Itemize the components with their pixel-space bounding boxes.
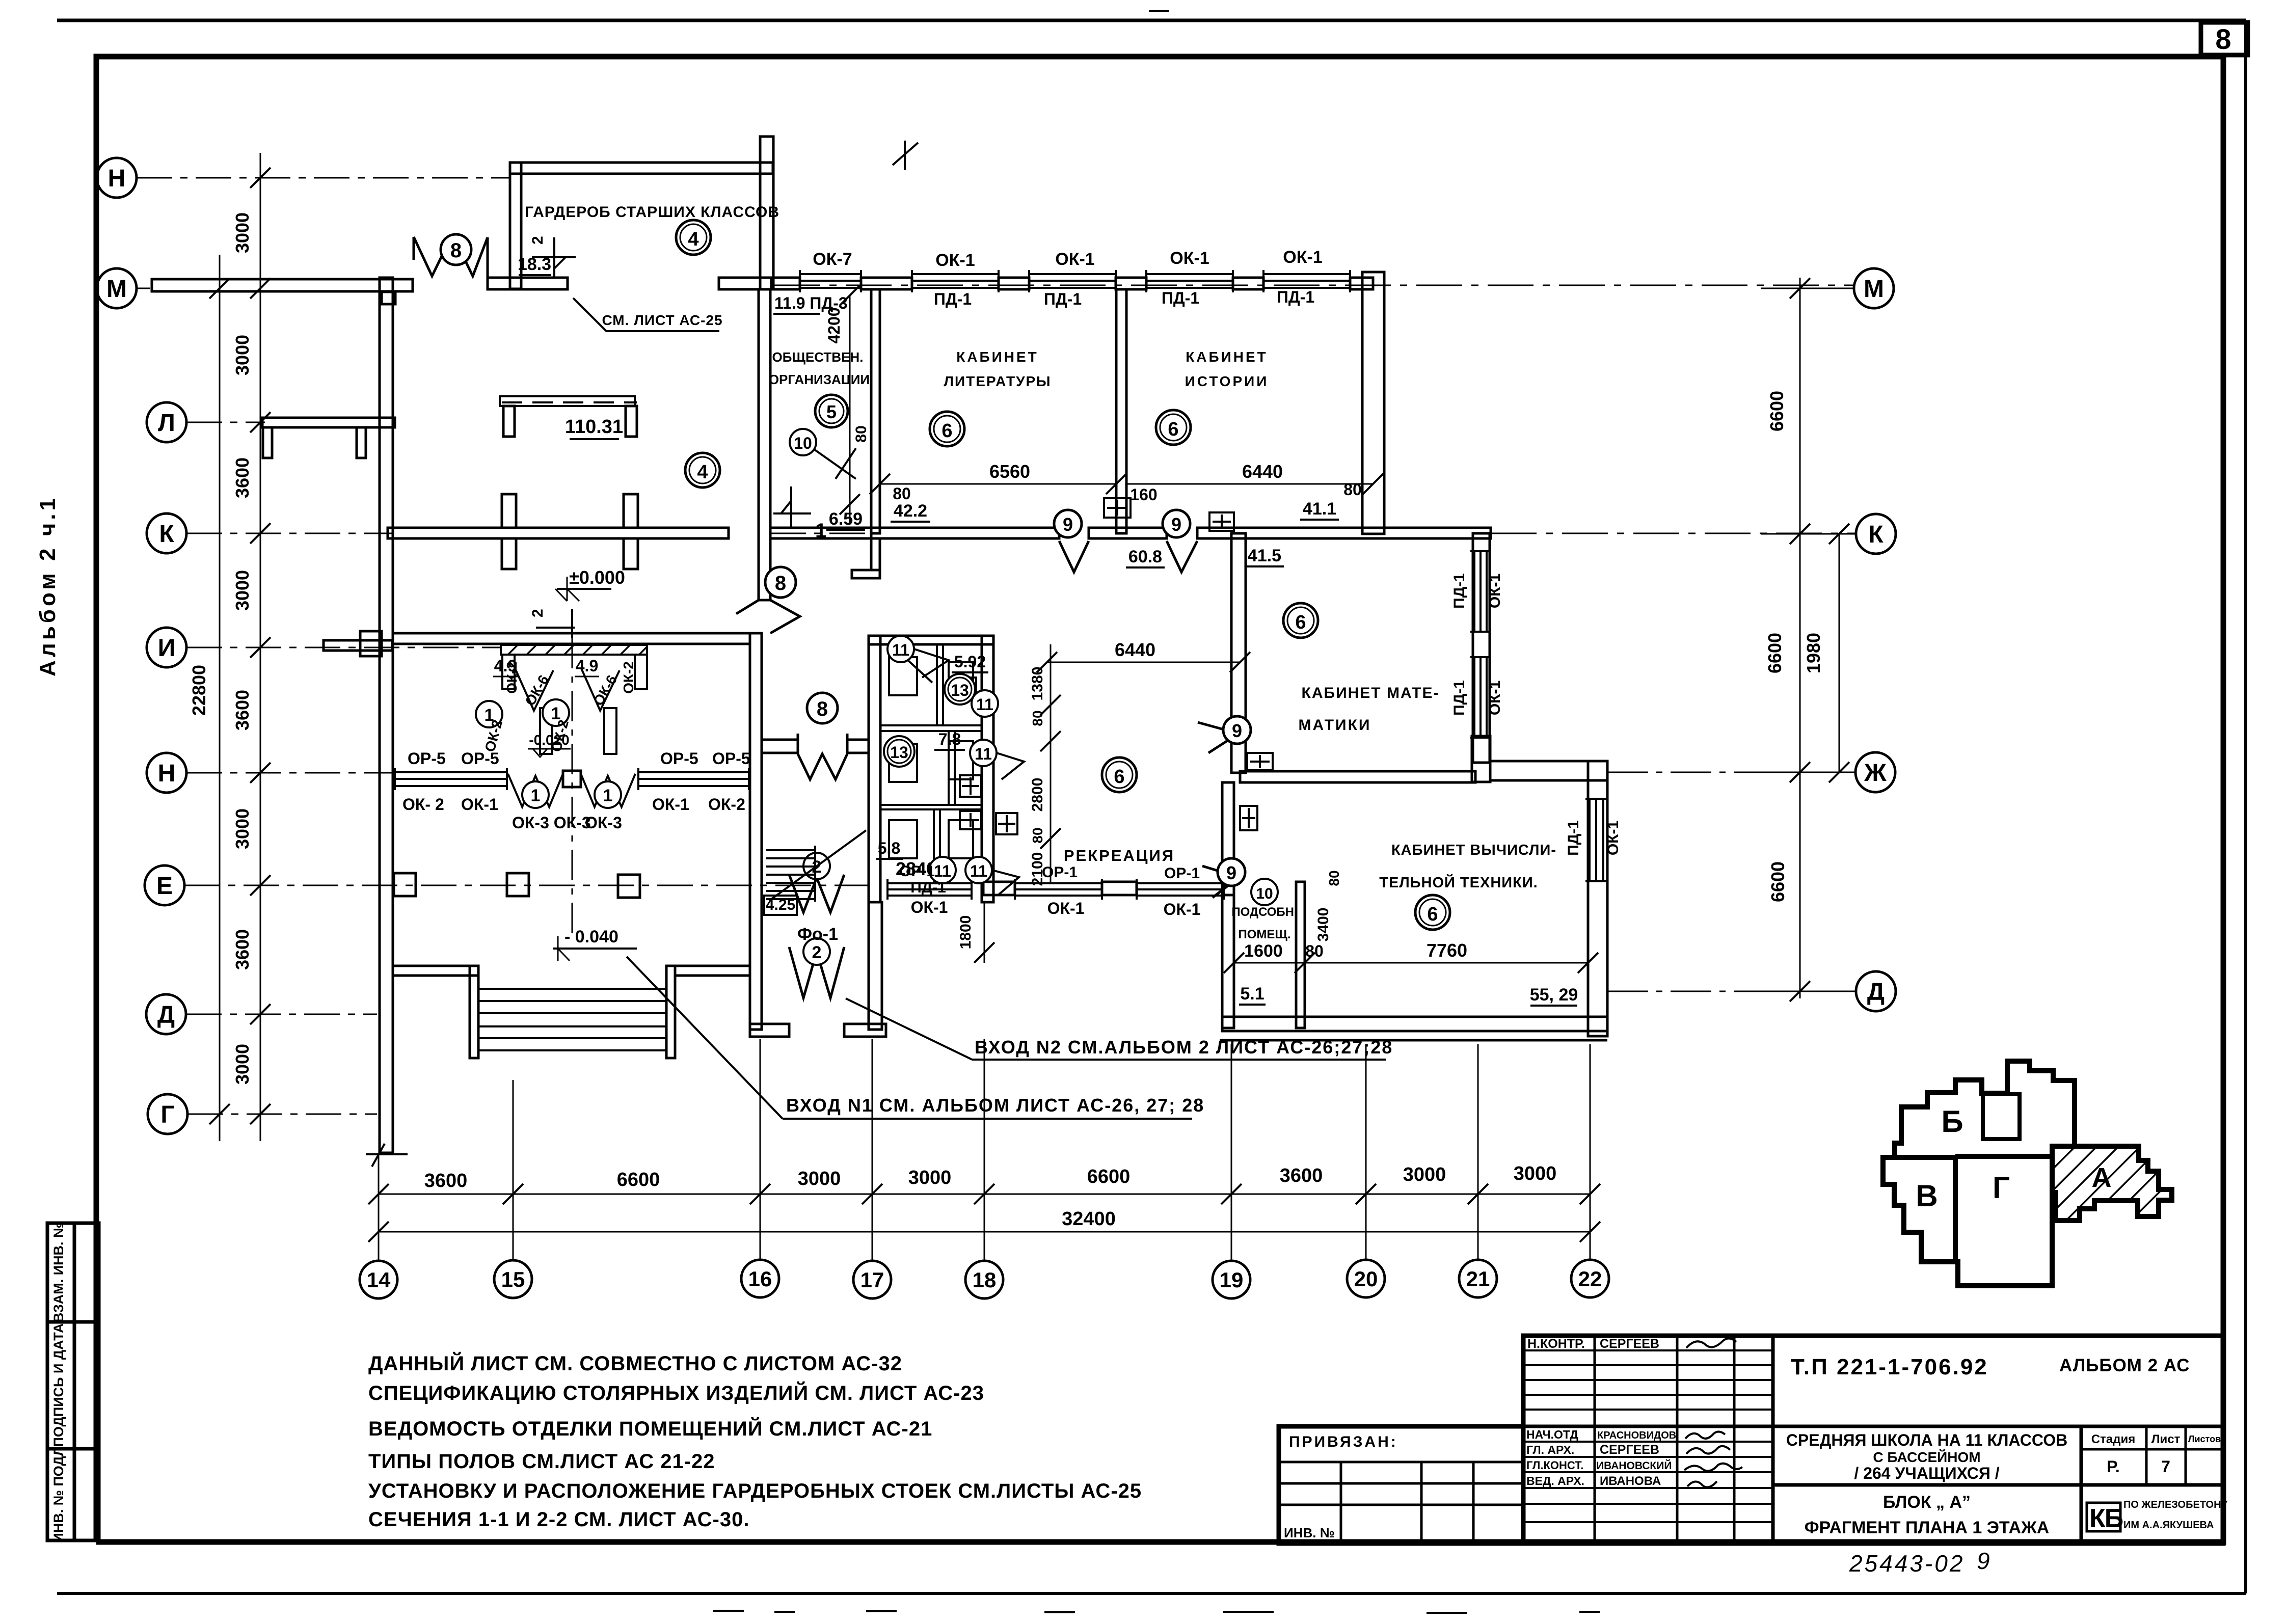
svg-text:А: А	[2092, 1162, 2112, 1193]
svg-text:6600: 6600	[1764, 633, 1785, 673]
svg-text:КАБИНЕТ ВЫЧИСЛИ-: КАБИНЕТ ВЫЧИСЛИ-	[1391, 842, 1556, 858]
D-axis bottom wall	[1222, 1017, 1607, 1031]
M-wing column stub	[382, 292, 395, 304]
svg-text:80: 80	[893, 484, 911, 503]
center corridor door 8	[798, 734, 847, 779]
bathroom west wall	[869, 636, 880, 902]
walls group	[152, 137, 1607, 1153]
svg-text:11: 11	[970, 862, 987, 880]
svg-text:Стадия: Стадия	[2091, 1432, 2135, 1446]
svg-text:16: 16	[748, 1267, 772, 1291]
svg-text:13: 13	[951, 681, 969, 699]
Zh-axis wall left part	[1240, 771, 1475, 782]
math circle 6	[1283, 603, 1318, 638]
svg-text:ОК-3: ОК-3	[585, 814, 622, 832]
svg-text:Фо-1: Фо-1	[797, 925, 838, 944]
svg-text:7760: 7760	[1427, 940, 1467, 961]
recreation dim 6440	[1047, 662, 1240, 663]
utility circle 10	[1251, 879, 1278, 905]
svg-text:14: 14	[367, 1268, 391, 1292]
svg-text:3400: 3400	[1315, 908, 1332, 942]
svg-text:22800: 22800	[189, 665, 209, 716]
svg-text:ОРГАНИЗАЦИИ: ОРГАНИЗАЦИИ	[769, 372, 870, 387]
svg-text:ОК-1: ОК-1	[652, 795, 689, 814]
right axis circles	[1854, 268, 1896, 1011]
window OR-5 left band	[395, 771, 507, 773]
svg-text:ОК-1: ОК-1	[1605, 821, 1622, 855]
heater math top	[1209, 512, 1234, 531]
utility door 9	[1202, 866, 1239, 898]
door circle 9 math	[1223, 716, 1251, 744]
svg-text:80: 80	[1305, 942, 1324, 960]
beam line hall	[500, 396, 635, 406]
svg-text:ОК- 2: ОК- 2	[402, 795, 444, 814]
bottom-left terrace wall left segment	[393, 966, 478, 976]
svg-text:11: 11	[892, 641, 909, 659]
svg-text:Т.П 221-1-706.92: Т.П 221-1-706.92	[1791, 1355, 1988, 1379]
svg-text:ВХОД N1 СМ. АЛЬБОМ ЛИСТ АС-26: ВХОД N1 СМ. АЛЬБОМ ЛИСТ АС-26, 27; 28	[786, 1095, 1204, 1116]
M-axis wall left wing	[152, 279, 413, 291]
window OK-1 math upper	[1473, 551, 1475, 632]
exterior entrance steps treads	[478, 989, 666, 1050]
bottom axis vertical lines	[379, 1039, 1590, 1260]
svg-text:4.9: 4.9	[576, 657, 598, 675]
svg-text:ИНВ. № ПОДЛ: ИНВ. № ПОДЛ	[51, 1446, 66, 1542]
stairwell west wall	[750, 633, 762, 1030]
svg-text:Р.: Р.	[2107, 1457, 2119, 1476]
svg-text:ВХОД N2 СМ.АЛЬБОМ 2 ЛИСТ АС-26: ВХОД N2 СМ.АЛЬБОМ 2 ЛИСТ АС-26;27;28	[975, 1037, 1393, 1058]
svg-text:В: В	[1916, 1179, 1938, 1213]
svg-text:25443-02: 25443-02	[1849, 1550, 1965, 1577]
windows on math room right wall	[1470, 551, 1491, 632]
svg-text:9: 9	[1977, 1548, 1990, 1574]
bathroom east wall	[982, 636, 993, 902]
central spine wall upper	[759, 289, 770, 600]
svg-text:Ж: Ж	[1864, 760, 1887, 787]
svg-text:ОК-2: ОК-2	[621, 661, 636, 694]
svg-text:80: 80	[1030, 710, 1045, 726]
svg-text:ОР-1: ОР-1	[899, 863, 935, 880]
hall circle 4	[685, 453, 720, 488]
notes block	[368, 1351, 1142, 1531]
svg-text:3000: 3000	[1403, 1164, 1446, 1185]
svg-text:СРЕДНЯЯ ШКОЛА НА 11 КЛАССОВ: СРЕДНЯЯ ШКОЛА НА 11 КЛАССОВ	[1786, 1431, 2067, 1449]
svg-text:6: 6	[941, 420, 952, 442]
svg-text:3000: 3000	[908, 1167, 952, 1188]
washroom window pier	[563, 771, 581, 787]
svg-text:Лист: Лист	[2151, 1432, 2181, 1446]
svg-text:3000: 3000	[798, 1168, 841, 1189]
section mark 2 bottom	[536, 609, 575, 638]
sheet number box top-right	[2201, 22, 2248, 55]
washroom hatched partition	[501, 645, 647, 655]
svg-text:СЕРГЕЕВ: СЕРГЕЕВ	[1600, 1443, 1659, 1457]
svg-text:ПОМЕЩ.: ПОМЕЩ.	[1238, 928, 1290, 941]
svg-text:ОК-2: ОК-2	[708, 795, 745, 814]
heater math bottom	[1247, 753, 1273, 770]
svg-text:КБ: КБ	[2089, 1504, 2123, 1533]
svg-text:ПД-1: ПД-1	[1451, 680, 1468, 716]
svg-text:8: 8	[817, 698, 828, 720]
svg-text:80: 80	[1030, 827, 1045, 843]
left axis circles	[97, 158, 187, 1134]
svg-text:ОК-1: ОК-1	[911, 898, 948, 916]
svg-text:С БАССЕЙНОМ: С БАССЕЙНОМ	[1873, 1449, 1980, 1465]
svg-text:7.8: 7.8	[938, 730, 961, 748]
svg-text:2800: 2800	[1029, 778, 1046, 812]
svg-text:3600: 3600	[232, 929, 253, 970]
bathroom top wall	[869, 636, 993, 644]
svg-text:2: 2	[529, 609, 546, 617]
washroom doors OK-6 upper	[515, 667, 620, 711]
svg-text:3000: 3000	[232, 335, 253, 375]
svg-text:1: 1	[531, 786, 541, 805]
E-axis columns	[394, 873, 416, 896]
utility room left wall	[1222, 782, 1234, 1028]
corridor door 8 in spine wall	[736, 600, 800, 633]
svg-text:СЕРГЕЕВ: СЕРГЕЕВ	[1600, 1337, 1659, 1351]
svg-text:8: 8	[2215, 23, 2231, 55]
svg-text:ТИПЫ ПОЛОВ СМ.ЛИСТ АС 21-22: ТИПЫ ПОЛОВ СМ.ЛИСТ АС 21-22	[368, 1450, 715, 1473]
svg-text:5.92: 5.92	[954, 653, 986, 671]
svg-text:К: К	[159, 521, 174, 548]
svg-text:9: 9	[1226, 862, 1236, 883]
svg-text:И: И	[158, 635, 176, 662]
windows on E wall recreation bottom	[887, 879, 972, 900]
svg-text:ПОДПИСЬ И ДАТА: ПОДПИСЬ И ДАТА	[51, 1323, 66, 1447]
svg-text:ИСТОРИИ: ИСТОРИИ	[1185, 373, 1269, 389]
svg-text:42.2: 42.2	[894, 501, 927, 521]
E wall piers	[983, 882, 1015, 895]
Zh-axis wall right part	[1490, 761, 1607, 780]
svg-text:ПОДСОБН.: ПОДСОБН.	[1231, 905, 1297, 919]
svg-text:ПД-1: ПД-1	[1162, 289, 1199, 307]
svg-text:18: 18	[973, 1268, 997, 1292]
svg-text:9: 9	[1171, 514, 1181, 535]
svg-text:АЛЬБОМ 2 АС: АЛЬБОМ 2 АС	[2059, 1356, 2190, 1375]
washroom doors 1 lower	[508, 774, 635, 807]
top edge mark	[1149, 10, 1169, 12]
interior stair treads	[766, 830, 866, 902]
small signature table verticals	[1594, 1336, 1596, 1544]
window OK-1 f	[1015, 882, 1102, 884]
svg-text:80: 80	[1326, 870, 1342, 886]
small table rows	[1523, 1349, 1773, 1351]
svg-text:Г: Г	[160, 1101, 174, 1128]
bottom dim labels	[424, 1163, 1557, 1230]
svg-text:2: 2	[529, 236, 546, 245]
sheet outer border top	[57, 19, 2246, 22]
svg-text:6: 6	[1427, 904, 1438, 925]
svg-text:Е: Е	[156, 873, 173, 900]
svg-text:1600: 1600	[1244, 941, 1283, 961]
svg-text:ВЕД. АРХ.: ВЕД. АРХ.	[1526, 1474, 1584, 1487]
svg-text:ОР-1: ОР-1	[1042, 864, 1078, 881]
svg-text:БЛОК „ А”: БЛОК „ А”	[1883, 1493, 1971, 1512]
svg-text:80: 80	[853, 425, 870, 442]
sheet outer border right	[2244, 20, 2247, 1593]
svg-text:11: 11	[934, 862, 951, 880]
svg-text:ГЛ. АРХ.: ГЛ. АРХ.	[1526, 1443, 1574, 1456]
svg-text:160: 160	[1130, 485, 1157, 504]
porch bottom wall right	[844, 1024, 886, 1037]
svg-text:М: М	[106, 276, 127, 303]
svg-text:ФРАГМЕНТ ПЛАНА 1 ЭТАЖА: ФРАГМЕНТ ПЛАНА 1 ЭТАЖА	[1805, 1518, 2050, 1537]
computer room right wall	[1588, 761, 1607, 1036]
right axis tick extensions	[1761, 288, 1856, 991]
svg-text:3000: 3000	[232, 570, 253, 611]
svg-text:ОК-3 ОК-3: ОК-3 ОК-3	[512, 814, 591, 832]
svg-text:Листов: Листов	[2188, 1434, 2221, 1444]
svg-text:1980: 1980	[1803, 633, 1824, 673]
svg-text:1: 1	[603, 786, 613, 805]
svg-text:Д: Д	[1867, 979, 1885, 1006]
svg-text:КАБИНЕТ: КАБИНЕТ	[956, 349, 1039, 365]
svg-text:55, 29: 55, 29	[1530, 985, 1578, 1005]
key plan block V	[1883, 1157, 1955, 1262]
svg-text:ДАННЫЙ ЛИСТ СМ. СОВМЕСТНО С: ДАННЫЙ ЛИСТ СМ. СОВМЕСТНО С ЛИСТОМ АС-32	[368, 1351, 902, 1375]
corridor door circle 8	[765, 567, 796, 598]
corridor wall stub left of door 8	[762, 740, 869, 753]
svg-text:Н.КОНТР.: Н.КОНТР.	[1527, 1337, 1585, 1351]
svg-text:11.9 ПД-3: 11.9 ПД-3	[774, 294, 848, 312]
literature history divider wall	[1116, 289, 1126, 533]
recreation circle 6	[1102, 757, 1137, 792]
computer room circle 6	[1415, 895, 1450, 930]
svg-text:НАЧ.ОТД: НАЧ.ОТД	[1526, 1428, 1578, 1441]
svg-text:3600: 3600	[232, 457, 253, 498]
svg-text:±0.000: ±0.000	[569, 567, 625, 588]
svg-text:КАБИНЕТ МАТЕ-: КАБИНЕТ МАТЕ-	[1302, 685, 1440, 701]
svg-text:21: 21	[1466, 1267, 1490, 1291]
svg-text:ПО ЖЕЛЕЗОБЕТОНУ: ПО ЖЕЛЕЗОБЕТОНУ	[2123, 1499, 2228, 1510]
window OK-7	[800, 273, 861, 275]
svg-text:ОК-1: ОК-1	[1170, 249, 1209, 268]
svg-text:ГАРДЕРОБ СТАРШИХ КЛАССОВ: ГАРДЕРОБ СТАРШИХ КЛАССОВ	[525, 204, 779, 221]
svg-text:КАБИНЕТ: КАБИНЕТ	[1186, 349, 1268, 365]
M-axis wall mid segment	[488, 278, 568, 289]
door canopy zigzag 8 top-left	[414, 237, 488, 278]
svg-text:6600: 6600	[1087, 1166, 1131, 1187]
windows on top M wall	[395, 270, 1606, 900]
svg-text:1: 1	[815, 520, 826, 542]
svg-text:7: 7	[2161, 1457, 2170, 1476]
svg-text:-0.020: -0.020	[529, 732, 569, 748]
washroom door circles 1	[522, 781, 549, 808]
svg-text:ИМ А.А.ЯКУШЕВА: ИМ А.А.ЯКУШЕВА	[2123, 1520, 2214, 1531]
literature circle 6	[930, 412, 964, 446]
wardrobe room top wall	[510, 163, 773, 174]
bottom dimension row 2 total	[379, 1231, 1590, 1233]
svg-text:ЛИТЕРАТУРЫ: ЛИТЕРАТУРЫ	[944, 373, 1051, 389]
svg-text:6: 6	[1295, 612, 1306, 633]
window OK-1 g	[1137, 882, 1224, 884]
classroom door 9 history	[1167, 541, 1197, 572]
top window wall piers	[772, 278, 800, 289]
svg-text:11: 11	[975, 745, 992, 763]
svg-text:СМ. ЛИСТ АС-25: СМ. ЛИСТ АС-25	[602, 312, 722, 328]
door circle 9 literature	[1054, 510, 1082, 537]
heater recreation	[996, 813, 1017, 834]
4200 dim line	[849, 295, 851, 525]
left dim ticks	[209, 168, 271, 1124]
svg-text:4.25: 4.25	[766, 897, 795, 913]
math room door 9	[1198, 722, 1239, 753]
privyazan box inner lines	[1279, 1461, 1523, 1464]
svg-text:ТЕЛЬНОЙ ТЕХНИКИ.: ТЕЛЬНОЙ ТЕХНИКИ.	[1379, 874, 1538, 891]
recreation vertical dim chain	[1050, 644, 1052, 882]
bottom dimension row 1	[379, 1194, 1590, 1195]
svg-text:Д: Д	[157, 1002, 175, 1028]
left margin stamp boxes	[47, 1223, 99, 1540]
section mark 2 top	[532, 237, 576, 278]
history room right wall	[1362, 272, 1384, 534]
svg-text:5: 5	[826, 401, 837, 422]
literature inner dim 6560	[880, 483, 1116, 485]
svg-text:ОР-1: ОР-1	[1164, 865, 1200, 882]
svg-text:20: 20	[1354, 1267, 1378, 1291]
Zh-axis wall jog	[1472, 736, 1490, 782]
svg-text:32400: 32400	[1062, 1208, 1116, 1230]
wardrobe room left wall	[510, 163, 521, 289]
svg-text:М: М	[1864, 276, 1884, 303]
mathematics room right wall	[1473, 533, 1490, 763]
svg-text:ИВАНОВСКИЙ: ИВАНОВСКИЙ	[1596, 1459, 1672, 1472]
svg-text:6560: 6560	[989, 461, 1030, 482]
svg-text:СЕЧЕНИЯ 1-1 И 2-2 СМ. ЛИСТ: СЕЧЕНИЯ 1-1 И 2-2 СМ. ЛИСТ АС-30.	[368, 1508, 749, 1531]
utility room right wall	[1296, 882, 1305, 1028]
svg-text:3600: 3600	[1280, 1165, 1323, 1186]
svg-text:10: 10	[1256, 885, 1273, 902]
L-axis wall stub	[262, 418, 395, 427]
center door circle 8	[807, 693, 838, 723]
door circle 9 utility	[1218, 858, 1245, 886]
svg-text:22: 22	[1578, 1267, 1602, 1291]
washroom top wall I-axis	[393, 633, 750, 644]
heater utility	[1240, 806, 1257, 830]
K-axis classroom bottom wall segments	[871, 528, 1059, 538]
key plan block B courtyard notch	[1983, 1094, 2020, 1139]
svg-text:Б: Б	[1941, 1104, 1963, 1139]
I-axis column on left wall	[360, 631, 382, 656]
canopy circle 8	[441, 234, 471, 265]
svg-text:17: 17	[860, 1268, 884, 1292]
svg-text:ОК-1: ОК-1	[1164, 900, 1201, 918]
bathroom fixtures	[889, 657, 917, 695]
svg-text:ОК-7: ОК-7	[813, 250, 852, 269]
svg-text:19: 19	[1220, 1268, 1244, 1292]
svg-text:6440: 6440	[1115, 639, 1155, 660]
section mark 1 top	[893, 141, 918, 170]
svg-text:Н: Н	[108, 165, 126, 192]
svg-text:4.9: 4.9	[494, 657, 517, 675]
left wall bottom end tick	[366, 1153, 408, 1155]
svg-text:ОК-1: ОК-1	[1055, 250, 1094, 269]
door circle 9 history	[1163, 510, 1190, 537]
key plan block G	[1955, 1156, 2052, 1286]
svg-text:60.8: 60.8	[1128, 547, 1162, 566]
svg-text:2: 2	[812, 943, 822, 962]
svg-text:6600: 6600	[1767, 861, 1788, 902]
window OK-1 d	[1263, 273, 1350, 275]
svg-text:3000: 3000	[232, 212, 253, 253]
svg-text:6.59: 6.59	[829, 509, 863, 529]
porch east wall	[869, 902, 882, 1030]
svg-text:Альбом 2 ч.1: Альбом 2 ч.1	[35, 495, 60, 676]
utility dims	[1234, 962, 1588, 964]
window OR-5 right band	[638, 771, 749, 773]
key plan block B	[1883, 1061, 2075, 1286]
svg-text:10: 10	[794, 434, 812, 452]
svg-text:1800: 1800	[957, 915, 974, 950]
svg-text:ОК-1: ОК-1	[1487, 574, 1503, 608]
heater radiators	[996, 498, 1273, 834]
svg-text:ГЛ.КОНСТ.: ГЛ.КОНСТ.	[1526, 1459, 1583, 1472]
heater history wall	[1104, 498, 1131, 518]
svg-text:4200: 4200	[825, 307, 843, 343]
svg-text:ОК-1: ОК-1	[1283, 248, 1322, 267]
title block outer	[1279, 1336, 2223, 1544]
washroom upper door circles 1	[476, 701, 502, 727]
svg-text:Н: Н	[158, 760, 176, 787]
window OK-1 e	[887, 882, 972, 884]
svg-text:15: 15	[501, 1267, 525, 1291]
windows on N2 wall washrooms	[395, 768, 507, 790]
porch bottom wall left	[750, 1024, 789, 1037]
classroom door 9 literature	[1059, 541, 1089, 572]
bottom edge scanner marks	[713, 1611, 1600, 1613]
svg-text:3600: 3600	[232, 690, 253, 730]
public org circle 5	[815, 395, 848, 427]
I-axis wall stub left	[324, 640, 392, 651]
svg-text:ПД-1: ПД-1	[1565, 820, 1582, 856]
svg-text:41.5: 41.5	[1248, 546, 1281, 565]
svg-text:ПРИВЯЗАН:: ПРИВЯЗАН:	[1289, 1433, 1398, 1450]
svg-text:ОР-5: ОР-5	[712, 749, 750, 768]
svg-text:СПЕЦИФИКАЦИЮ СТОЛЯРНЫХ ИЗДЕЛИЙ: СПЕЦИФИКАЦИЮ СТОЛЯРНЫХ ИЗДЕЛИЙ СМ. ЛИСТ …	[368, 1381, 984, 1404]
window OK-1 c	[1146, 273, 1233, 275]
window OK-1 b	[1029, 273, 1116, 275]
entrance steps left stringer	[470, 966, 478, 1058]
svg-text:- 0.040: - 0.040	[564, 927, 618, 946]
dashed partition hall	[502, 401, 637, 403]
svg-text:6440: 6440	[1242, 461, 1283, 482]
circle 10 public org	[790, 429, 816, 455]
svg-text:4: 4	[697, 462, 708, 483]
svg-text:9: 9	[1063, 514, 1073, 535]
svg-text:9: 9	[1232, 720, 1242, 741]
public org room right wall	[871, 289, 880, 533]
door 10 in public org room	[813, 448, 856, 479]
porch doors 2	[789, 875, 844, 998]
svg-text:ОК-1: ОК-1	[935, 251, 975, 270]
bathroom inner partitions	[880, 644, 982, 882]
svg-text:ОК-1: ОК-1	[461, 795, 498, 814]
bottom axis circles	[360, 1260, 1609, 1298]
wardrobe room circle 4	[676, 220, 711, 255]
svg-text:Г: Г	[1993, 1171, 2010, 1205]
svg-text:ВЕДОМОСТЬ ОТДЕЛКИ ПОМЕЩЕНИЙ С: ВЕДОМОСТЬ ОТДЕЛКИ ПОМЕЩЕНИЙ СМ.ЛИСТ АС-2…	[368, 1417, 932, 1440]
window OK-1 math lower	[1473, 657, 1475, 738]
svg-text:ОР-5: ОР-5	[408, 749, 446, 768]
svg-text:6: 6	[1114, 766, 1124, 788]
section mark 1	[773, 486, 811, 527]
right dimension chain	[1800, 278, 1839, 998]
left dimension chain lines	[220, 153, 260, 1141]
svg-text:/ 264 УЧАЩИХСЯ /: / 264 УЧАЩИХСЯ /	[1854, 1464, 1999, 1482]
bathroom circles and dims	[887, 636, 914, 662]
svg-text:ОК-1: ОК-1	[1487, 681, 1503, 715]
